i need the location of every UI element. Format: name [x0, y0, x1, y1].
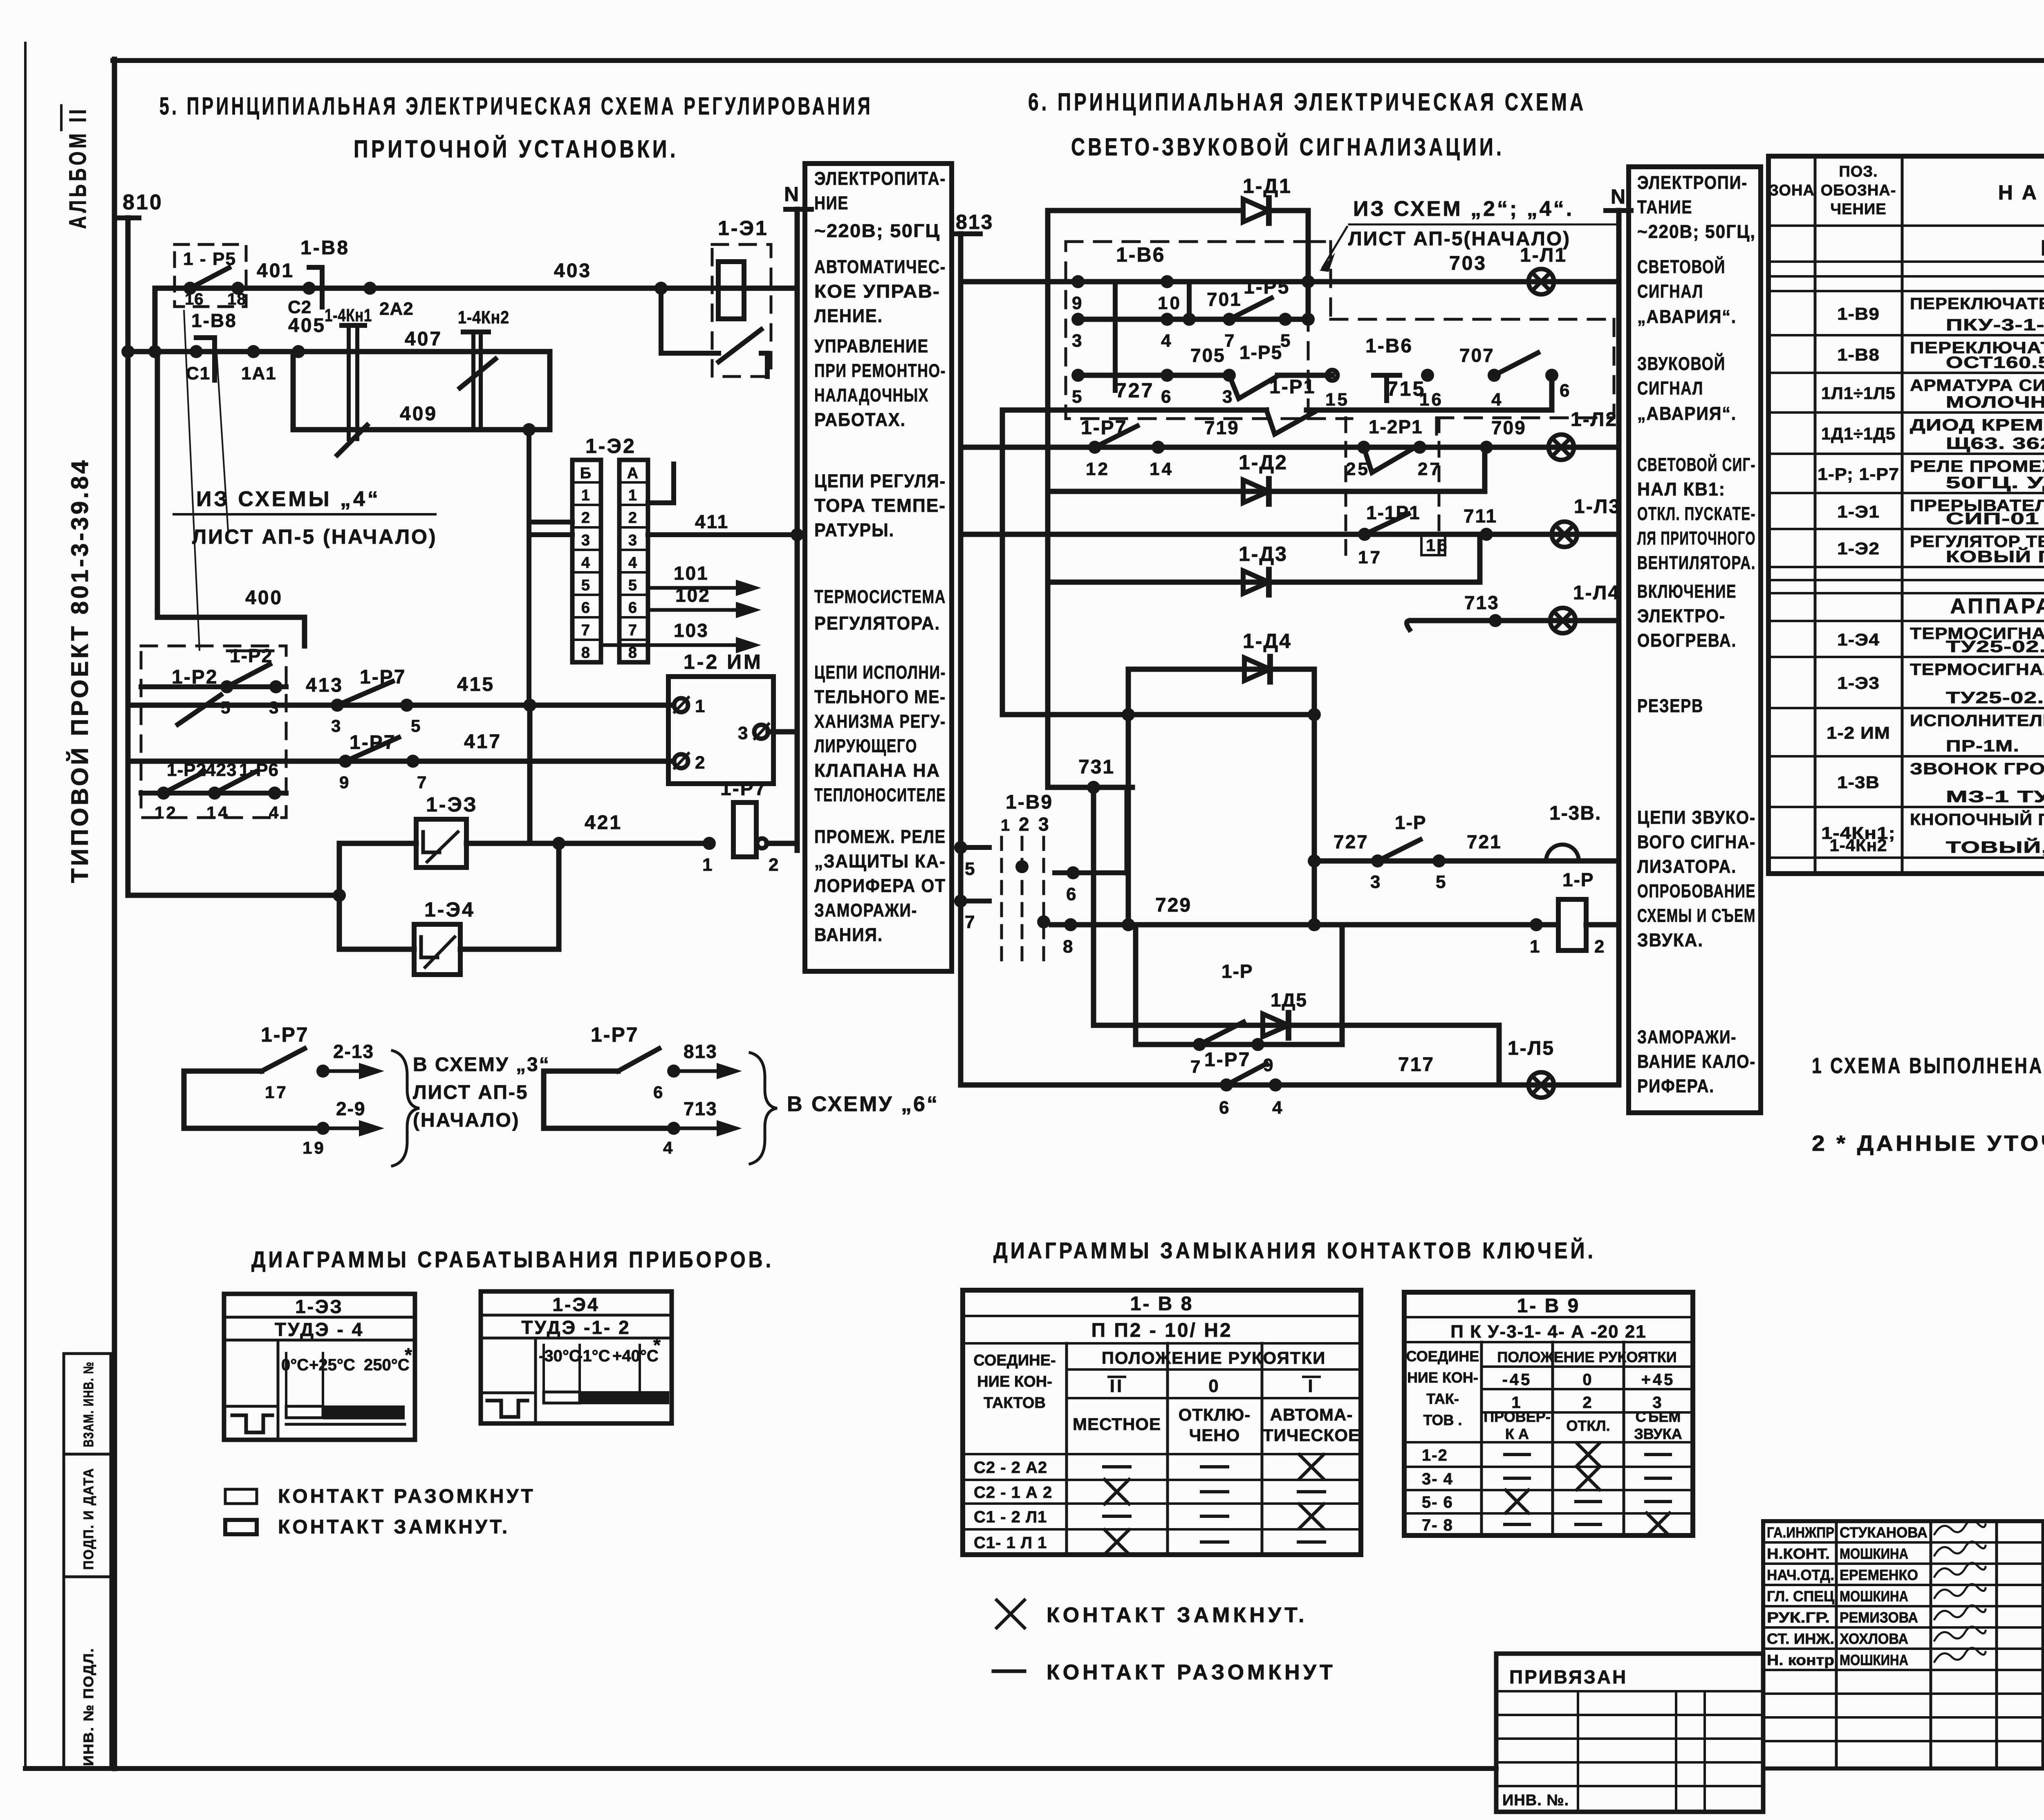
svg-text:421: 421 — [585, 812, 622, 834]
svg-text:705: 705 — [1190, 345, 1226, 366]
svg-text:*: * — [653, 1334, 663, 1356]
svg-text:ОТКЛ.: ОТКЛ. — [1566, 1417, 1610, 1434]
svg-text:810: 810 — [123, 191, 163, 214]
svg-text:ИЗ СХЕМЫ „4“: ИЗ СХЕМЫ „4“ — [196, 487, 381, 511]
svg-text:ТЕЛЬНОГО МЕ-: ТЕЛЬНОГО МЕ- — [814, 686, 946, 707]
svg-text:Щ63. 362. 002 .ТУ: Щ63. 362. 002 .ТУ — [1946, 435, 2044, 453]
svg-text:2: 2 — [695, 753, 707, 773]
svg-text:15: 15 — [1325, 390, 1349, 410]
svg-text:1: 1 — [628, 487, 639, 504]
svg-text:АВТОМАТИЧЕС-: АВТОМАТИЧЕС- — [814, 256, 946, 277]
svg-text:ЛИРУЮЩЕГО: ЛИРУЮЩЕГО — [814, 735, 917, 756]
svg-text:ПОЗ.: ПОЗ. — [1839, 163, 1878, 180]
svg-text:ЦЕПИ ЗВУКО-: ЦЕПИ ЗВУКО- — [1637, 807, 1756, 828]
svg-text:1-Д2: 1-Д2 — [1239, 451, 1288, 474]
svg-text:НИЕ КОН-: НИЕ КОН- — [1407, 1369, 1478, 1386]
svg-text:1-3В: 1-3В — [1837, 773, 1880, 792]
svg-text:ОБОГРЕВА.: ОБОГРЕВА. — [1637, 630, 1737, 651]
svg-text:ПР-1М.: ПР-1М. — [1946, 737, 2019, 755]
svg-text:С1- 1 Л 1: С1- 1 Л 1 — [974, 1534, 1047, 1552]
svg-text:ЗВУКА.: ЗВУКА. — [1637, 930, 1703, 950]
svg-text:СХЕМЫ И СЪЕМ: СХЕМЫ И СЪЕМ — [1637, 905, 1756, 926]
svg-text:ЭЛЕКТРО-: ЭЛЕКТРО- — [1637, 605, 1726, 626]
svg-text:3: 3 — [738, 723, 750, 743]
svg-text:417: 417 — [464, 731, 502, 753]
svg-text:1-Л4: 1-Л4 — [1573, 582, 1620, 604]
svg-text:УПРАВЛЕНИЕ: УПРАВЛЕНИЕ — [814, 336, 929, 356]
svg-text:2: 2 — [1582, 1394, 1594, 1412]
svg-text:ТУДЭ -1- 2: ТУДЭ -1- 2 — [521, 1317, 630, 1338]
svg-text:СВЕТОВОЙ: СВЕТОВОЙ — [1637, 256, 1726, 277]
svg-text:РАБОТАХ.: РАБОТАХ. — [814, 409, 906, 430]
svg-text:713: 713 — [1464, 592, 1499, 613]
svg-text:С2 - 1 А 2: С2 - 1 А 2 — [974, 1484, 1052, 1502]
svg-text:РЕМИЗОВА: РЕМИЗОВА — [1840, 1609, 1918, 1626]
svg-text:ПКУ-3-1-4-А-2021 ТУ16.526: ПКУ-3-1-4-А-2021 ТУ16.526.047-72 — [1946, 316, 2044, 334]
svg-text:ЛИСТ АП-5: ЛИСТ АП-5 — [413, 1082, 529, 1103]
svg-text:1: 1 — [702, 855, 714, 875]
svg-text:1Л1÷1Л5: 1Л1÷1Л5 — [1821, 383, 1896, 403]
svg-text:1-В9: 1-В9 — [1006, 791, 1053, 813]
svg-text:ОТКЛЮ-: ОТКЛЮ- — [1179, 1405, 1251, 1424]
svg-text:С1 - 2 Л1: С1 - 2 Л1 — [974, 1508, 1047, 1526]
svg-text:717: 717 — [1398, 1054, 1434, 1076]
svg-text:6: 6 — [628, 599, 639, 616]
svg-text:5: 5 — [1436, 872, 1448, 892]
svg-text:-45: -45 — [1502, 1371, 1532, 1389]
svg-text:1 СХЕМА ВЫПОЛНЕНА НА 2: 1 СХЕМА ВЫПОЛНЕНА НА 2 — [1812, 1053, 2044, 1078]
svg-text:2-9: 2-9 — [336, 1098, 365, 1119]
svg-text:РИФЕРА.: РИФЕРА. — [1637, 1076, 1715, 1096]
svg-text:1-Р1: 1-Р1 — [1269, 376, 1316, 398]
svg-text:7: 7 — [1224, 331, 1236, 351]
svg-text:2: 2 — [1019, 814, 1031, 835]
svg-text:С2 - 2 А2: С2 - 2 А2 — [974, 1459, 1047, 1477]
svg-text:КЛАПАНА НА: КЛАПАНА НА — [814, 760, 940, 781]
svg-text:ТУДЭ - 4: ТУДЭ - 4 — [275, 1319, 364, 1340]
svg-text:ЗВОНОК ГРОМКОГО БОЯ ~220В. 50: ЗВОНОК ГРОМКОГО БОЯ ~220В. 50ГЦ — [1910, 760, 2044, 778]
svg-text:101: 101 — [674, 563, 709, 584]
svg-text:7: 7 — [581, 622, 592, 639]
svg-text:ИНВ. №.: ИНВ. №. — [1502, 1792, 1569, 1809]
svg-text:50ГЦ. УДК-621. 318. 56: 50ГЦ. УДК-621. 318. 56 — [1946, 474, 2044, 492]
svg-text:17: 17 — [265, 1083, 288, 1102]
svg-text:1-В8: 1-В8 — [191, 310, 237, 331]
svg-text:1- В 8: 1- В 8 — [1130, 1293, 1194, 1315]
svg-text:В СХЕМУ „6“: В СХЕМУ „6“ — [787, 1092, 939, 1116]
svg-text:N: N — [784, 183, 800, 206]
svg-text:7- 8: 7- 8 — [1422, 1516, 1453, 1534]
svg-text:1-В6: 1-В6 — [1116, 243, 1165, 266]
svg-text:3: 3 — [1038, 814, 1051, 835]
svg-text:6: 6 — [653, 1083, 665, 1102]
svg-text:1-Р7: 1-Р7 — [261, 1023, 309, 1046]
svg-text:3: 3 — [331, 716, 343, 735]
svg-text:ЭЛЕКТРОПИТА-: ЭЛЕКТРОПИТА- — [814, 168, 946, 189]
svg-text:707: 707 — [1459, 345, 1495, 366]
svg-text:1-Р2: 1-Р2 — [230, 645, 273, 666]
svg-text:1-Э2: 1-Э2 — [585, 435, 636, 457]
svg-text:ВЗАМ. ИНВ. №: ВЗАМ. ИНВ. № — [81, 1361, 96, 1447]
svg-text:П К У-3-1- 4- А -20 21: П К У-3-1- 4- А -20 21 — [1450, 1322, 1647, 1342]
svg-text:813: 813 — [684, 1041, 717, 1062]
svg-text:5: 5 — [628, 577, 639, 594]
svg-text:НАЧ.ОТД.: НАЧ.ОТД. — [1767, 1567, 1834, 1583]
svg-text:НИЕ: НИЕ — [814, 193, 849, 213]
svg-text:ВОГО СИГНА-: ВОГО СИГНА- — [1637, 832, 1756, 852]
svg-text:-30°С: -30°С — [539, 1347, 581, 1365]
svg-text:ТАКТОВ: ТАКТОВ — [984, 1394, 1046, 1412]
svg-text:N: N — [1611, 185, 1626, 208]
svg-text:4: 4 — [1161, 331, 1173, 351]
svg-text:ОБОЗНА-: ОБОЗНА- — [1821, 182, 1896, 199]
svg-text:ПРИ РЕМОНТНО-: ПРИ РЕМОНТНО- — [814, 360, 946, 381]
svg-text:ЗОНА: ЗОНА — [1769, 182, 1815, 199]
svg-text:ТИПОВОЙ ПРОЕКТ 801-3-39.84: ТИПОВОЙ ПРОЕКТ 801-3-39.84 — [67, 458, 93, 883]
svg-text:ПРОВЕР-: ПРОВЕР- — [1484, 1408, 1550, 1425]
svg-text:ПЕРЕКЛЮЧАТЕЛЬ УНИВЕРСАЛЬНЫЙ: ПЕРЕКЛЮЧАТЕЛЬ УНИВЕРСАЛЬНЫЙ — [1910, 294, 2044, 313]
svg-text:9: 9 — [1072, 293, 1084, 313]
svg-text:ТОВ .: ТОВ . — [1423, 1412, 1462, 1428]
svg-text:СВЕТОВОЙ СИГ-: СВЕТОВОЙ СИГ- — [1637, 454, 1756, 475]
svg-text:СТ. ИНЖ.: СТ. ИНЖ. — [1767, 1630, 1834, 1647]
svg-text:ВАНИЕ КАЛО-: ВАНИЕ КАЛО- — [1637, 1051, 1756, 1072]
svg-text:СОЕДИНЕ-: СОЕДИНЕ- — [973, 1352, 1056, 1369]
svg-text:НАЛАДОЧНЫХ: НАЛАДОЧНЫХ — [814, 385, 929, 406]
svg-text:ЗАМОРАЖИ-: ЗАМОРАЖИ- — [1637, 1027, 1737, 1047]
svg-text:407: 407 — [405, 328, 442, 350]
svg-text:ТЕРМОСИГНАЛИЗАТОР ТИПА ТУДЭ-4: ТЕРМОСИГНАЛИЗАТОР ТИПА ТУДЭ-4 — [1910, 661, 2044, 679]
svg-text:СЪЕМ: СЪЕМ — [1636, 1408, 1681, 1425]
svg-text:ТЕРМОСИСТЕМА: ТЕРМОСИСТЕМА — [814, 586, 946, 607]
svg-text:3: 3 — [1072, 331, 1084, 351]
svg-text:5: 5 — [965, 859, 977, 879]
svg-text:715: 715 — [1387, 377, 1425, 400]
svg-text:400: 400 — [245, 587, 283, 609]
svg-text:ХАНИЗМА РЕГУ-: ХАНИЗМА РЕГУ- — [814, 711, 946, 732]
svg-text:1: 1 — [1530, 937, 1542, 957]
svg-text:413: 413 — [306, 675, 343, 696]
svg-text:РЕЗЕРВ: РЕЗЕРВ — [1637, 695, 1703, 716]
svg-text:КОЕ УПРАВ-: КОЕ УПРАВ- — [814, 281, 940, 302]
svg-text:1-В9: 1-В9 — [1837, 304, 1880, 323]
svg-text:1-2 ИМ: 1-2 ИМ — [1827, 723, 1890, 742]
svg-text:ПОЛОЖЕНИЕ РУКОЯТКИ: ПОЛОЖЕНИЕ РУКОЯТКИ — [1102, 1348, 1326, 1367]
svg-text:ИНВ. № ПОДЛ.: ИНВ. № ПОДЛ. — [81, 1647, 96, 1766]
svg-text:6: 6 — [1161, 387, 1173, 407]
svg-text:ЦЕПИ ИСПОЛНИ-: ЦЕПИ ИСПОЛНИ- — [814, 662, 946, 683]
svg-text:МЗ-1 ТУ25-05.1045-76: МЗ-1 ТУ25-05.1045-76 — [1946, 788, 2044, 806]
svg-text:АРМАТУРА СИГНАЛЬНЫХ ЛАМП ~220В: АРМАТУРА СИГНАЛЬНЫХ ЛАМП ~220В, ЛИНЗА — [1910, 377, 2044, 394]
svg-text:ИЗ СХЕМ „2“; „4“.: ИЗ СХЕМ „2“; „4“. — [1353, 197, 1574, 221]
svg-text:250°С: 250°С — [364, 1356, 410, 1374]
svg-text:-1°С: -1°С — [577, 1347, 610, 1365]
svg-text:КНОПОЧНЫЙ ПОСТ УПРАВЛЕНИЯ ДВУХ: КНОПОЧНЫЙ ПОСТ УПРАВЛЕНИЯ ДВУХШТИФ- — [1910, 810, 2044, 829]
svg-text:2: 2 — [1594, 937, 1606, 957]
svg-text:СИГНАЛ: СИГНАЛ — [1637, 378, 1703, 399]
svg-text:МОШКИНА: МОШКИНА — [1840, 1652, 1908, 1668]
svg-text:ВКЛЮЧЕНИЕ: ВКЛЮЧЕНИЕ — [1637, 581, 1737, 602]
svg-text:2 * ДАННЫЕ УТОЧНЯЮТСЯ ПРИ: 2 * ДАННЫЕ УТОЧНЯЮТСЯ ПРИ НАЛАДКЕ. — [1812, 1131, 2044, 1156]
svg-text:ЕРЕМЕНКО: ЕРЕМЕНКО — [1840, 1567, 1918, 1583]
svg-text:5. ПРИНЦИПИАЛЬНАЯ ЭЛЕКТРИЧЕС: 5. ПРИНЦИПИАЛЬНАЯ ЭЛЕКТРИЧЕСКАЯ СХЕМА РЕ… — [159, 92, 873, 120]
svg-text:4: 4 — [581, 554, 592, 572]
svg-text:ТУ25-02. 281074-78: ТУ25-02. 281074-78 — [1946, 689, 2044, 707]
svg-text:1-Р7: 1-Р7 — [350, 732, 396, 753]
svg-text:ЧЕНО: ЧЕНО — [1189, 1426, 1240, 1445]
svg-text:ТУ25-02. 281074 -78: ТУ25-02. 281074 -78 — [1946, 638, 2044, 656]
svg-text:7: 7 — [965, 912, 977, 932]
svg-text:РЕГУЛЯТОРА.: РЕГУЛЯТОРА. — [814, 613, 940, 634]
svg-text:ЗВУКОВОЙ: ЗВУКОВОЙ — [1637, 353, 1726, 374]
svg-text:МОШКИНА: МОШКИНА — [1840, 1588, 1908, 1605]
svg-text:1Д5: 1Д5 — [1271, 989, 1307, 1011]
svg-text:1-Д1: 1-Д1 — [1243, 175, 1292, 197]
svg-text:1-Р; 1-Р7: 1-Р; 1-Р7 — [1818, 464, 1899, 484]
svg-text:КОВЫЙ ПТРЗ-04 ТУ25.02-2003: КОВЫЙ ПТРЗ-04 ТУ25.02-200345-78 — [1946, 547, 2044, 566]
svg-text:ПРОМЕЖ. РЕЛЕ: ПРОМЕЖ. РЕЛЕ — [814, 826, 946, 847]
svg-text:7: 7 — [1190, 1057, 1202, 1077]
svg-text:ОПРОБОВАНИЕ: ОПРОБОВАНИЕ — [1637, 881, 1756, 901]
svg-text:1-Р5: 1-Р5 — [1244, 276, 1290, 298]
svg-text:1-3В.: 1-3В. — [1549, 802, 1601, 824]
svg-text:Б: Б — [580, 465, 593, 482]
svg-text:АППАРАТУРА ПО МЕСТУ.: АППАРАТУРА ПО МЕСТУ. — [1950, 594, 2044, 618]
svg-text:1-Р: 1-Р — [1562, 869, 1594, 890]
svg-text:ЩИТ ЩУ1: ЩИТ ЩУ1 — [2041, 236, 2044, 260]
svg-text:4: 4 — [1491, 390, 1503, 410]
svg-text:5- 6: 5- 6 — [1422, 1493, 1453, 1511]
svg-text:19: 19 — [303, 1138, 326, 1157]
svg-text:ДИОД КРЕМНИЕВЫЙ Д-226Б: ДИОД КРЕМНИЕВЫЙ Д-226Б — [1910, 415, 2044, 434]
svg-text:1-Э3: 1-Э3 — [1837, 673, 1880, 693]
svg-text:ПРИВЯЗАН: ПРИВЯЗАН — [1509, 1666, 1627, 1688]
svg-text:1-Э2: 1-Э2 — [1837, 539, 1880, 558]
svg-text:1-Л1: 1-Л1 — [1520, 244, 1567, 266]
svg-text:1-ЭЗ: 1-ЭЗ — [295, 1296, 343, 1317]
svg-text:2: 2 — [628, 509, 639, 527]
svg-text:6. ПРИНЦИПИАЛЬНАЯ ЭЛЕКТРИЧЕСК: 6. ПРИНЦИПИАЛЬНАЯ ЭЛЕКТРИЧЕСКАЯ СХЕМА — [1028, 88, 1586, 116]
svg-text:ВАНИЯ.: ВАНИЯ. — [814, 924, 883, 945]
svg-text:1-Э1: 1-Э1 — [718, 217, 769, 240]
svg-text:409: 409 — [400, 403, 437, 425]
svg-text:Н. контр: Н. контр — [1767, 1652, 1834, 1668]
svg-text:1Д1÷1Д5: 1Д1÷1Д5 — [1821, 424, 1896, 443]
svg-text:ИСПОЛНИТЕЛЬНЫЙ МЕХАНИЗМ: ИСПОЛНИТЕЛЬНЫЙ МЕХАНИЗМ — [1910, 711, 2044, 730]
svg-text:+45: +45 — [1641, 1371, 1675, 1389]
svg-text:12: 12 — [155, 803, 178, 822]
svg-text:1-Э4: 1-Э4 — [552, 1294, 599, 1315]
svg-text:3: 3 — [581, 532, 592, 549]
svg-text:1-Р7: 1-Р7 — [720, 778, 766, 800]
svg-text:1-В8: 1-В8 — [1837, 345, 1880, 364]
svg-text:3: 3 — [628, 532, 639, 549]
svg-text:1-2 ИМ: 1-2 ИМ — [684, 650, 763, 673]
svg-text:1А1: 1А1 — [241, 363, 277, 383]
svg-text:411: 411 — [695, 511, 729, 532]
svg-text:АВТОМА-: АВТОМА- — [1270, 1405, 1353, 1424]
svg-text:ЛЕНИЕ.: ЛЕНИЕ. — [814, 305, 883, 326]
svg-text:14: 14 — [206, 803, 230, 822]
svg-text:СТУКАНОВА: СТУКАНОВА — [1840, 1524, 1927, 1541]
svg-text:1-2: 1-2 — [1422, 1446, 1448, 1464]
svg-text:4: 4 — [663, 1138, 675, 1157]
svg-text:8: 8 — [1063, 937, 1075, 957]
svg-text:1: 1 — [1001, 816, 1012, 834]
svg-text:7: 7 — [417, 773, 428, 792]
svg-text:1-Р2: 1-Р2 — [172, 666, 218, 688]
svg-text:СВЕТО-ЗВУКОВОЙ СИГНАЛИЗАЦИИ.: СВЕТО-ЗВУКОВОЙ СИГНАЛИЗАЦИИ. — [1071, 133, 1504, 161]
svg-text:709: 709 — [1491, 417, 1526, 438]
svg-text:4: 4 — [1272, 1098, 1284, 1118]
svg-text:103: 103 — [674, 620, 709, 641]
svg-text:П П2 - 10/ Н2: П П2 - 10/ Н2 — [1091, 1320, 1232, 1341]
svg-text:ТОВЫЙ, 1з+1з КОНТ. ПКЕ-222: ТОВЫЙ, 1з+1з КОНТ. ПКЕ-222-2 — [1946, 838, 2044, 856]
svg-text:17: 17 — [1358, 547, 1382, 567]
svg-text:С1: С1 — [186, 363, 211, 383]
svg-text:РЕЛЕ ПРОМЕЖУТОЧНОЕ РПУ-2-36620: РЕЛЕ ПРОМЕЖУТОЧНОЕ РПУ-2-366203 ~220В — [1910, 457, 2044, 475]
svg-text:1-Э4: 1-Э4 — [1837, 630, 1880, 649]
svg-text:КОНТАКТ РАЗОМКНУТ: КОНТАКТ РАЗОМКНУТ — [1047, 1661, 1336, 1684]
svg-text:Н.КОНТ.: Н.КОНТ. — [1767, 1545, 1830, 1562]
svg-text:1-Л5: 1-Л5 — [1508, 1038, 1555, 1059]
svg-text:1 - Р5: 1 - Р5 — [183, 249, 236, 269]
svg-text:7: 7 — [628, 622, 639, 639]
svg-text:СИГНАЛ: СИГНАЛ — [1637, 281, 1703, 302]
svg-text:НИЕ КОН-: НИЕ КОН- — [977, 1373, 1052, 1390]
svg-text:16: 16 — [1426, 536, 1449, 555]
svg-text:719: 719 — [1204, 417, 1239, 438]
svg-text:703: 703 — [1449, 253, 1487, 274]
svg-text:729: 729 — [1155, 894, 1192, 916]
svg-text:4: 4 — [628, 554, 639, 572]
svg-text:1-4Кн2: 1-4Кн2 — [458, 307, 509, 327]
svg-text:5: 5 — [581, 577, 592, 594]
svg-text:ВЕНТИЛЯТОРА.: ВЕНТИЛЯТОРА. — [1637, 552, 1756, 573]
svg-text:МЕСТНОЕ: МЕСТНОЕ — [1073, 1414, 1161, 1434]
svg-text:СОЕДИНЕ: СОЕДИНЕ — [1406, 1348, 1479, 1365]
svg-text:1-В6: 1-В6 — [1365, 335, 1413, 357]
svg-text:731: 731 — [1078, 756, 1115, 778]
svg-text:8: 8 — [581, 644, 592, 661]
svg-text:403: 403 — [554, 260, 592, 282]
svg-text:ЛОРИФЕРА ОТ: ЛОРИФЕРА ОТ — [814, 875, 946, 896]
svg-text:*: * — [405, 1344, 414, 1365]
svg-text:711: 711 — [1464, 505, 1497, 527]
svg-text:КОНТАКТ РАЗОМКНУТ: КОНТАКТ РАЗОМКНУТ — [278, 1486, 536, 1507]
svg-text:6: 6 — [1066, 884, 1078, 904]
svg-text:2: 2 — [769, 855, 780, 875]
svg-text:ЦЕПИ РЕГУЛЯ-: ЦЕПИ РЕГУЛЯ- — [814, 471, 946, 491]
svg-text:721: 721 — [1467, 831, 1502, 852]
svg-text:ПОДП. И ДАТА: ПОДП. И ДАТА — [81, 1468, 96, 1570]
svg-text:АЛЬБОМ II: АЛЬБОМ II — [65, 106, 91, 229]
svg-text:1-2Р1: 1-2Р1 — [1369, 416, 1423, 437]
svg-text:ТАК-: ТАК- — [1426, 1390, 1459, 1407]
svg-text:ПОЛОЖЕНИЕ РУКОЯТКИ: ПОЛОЖЕНИЕ РУКОЯТКИ — [1497, 1349, 1676, 1365]
svg-text:ЗВУКА: ЗВУКА — [1634, 1426, 1682, 1442]
svg-text:701: 701 — [1207, 289, 1242, 310]
svg-text:ТИЧЕСКОЕ: ТИЧЕСКОЕ — [1263, 1426, 1360, 1445]
svg-text:„ЗАЩИТЫ КА-: „ЗАЩИТЫ КА- — [814, 851, 946, 872]
svg-text:ГА.ИНЖПР: ГА.ИНЖПР — [1767, 1524, 1834, 1541]
svg-text:КОНТАКТ ЗАМКНУТ.: КОНТАКТ ЗАМКНУТ. — [278, 1516, 510, 1538]
svg-text:ОСТ160.526.001-74: ОСТ160.526.001-74 — [1946, 354, 2044, 372]
svg-text:12: 12 — [1086, 459, 1110, 479]
svg-text:1-4Кн1: 1-4Кн1 — [325, 305, 372, 325]
svg-text:„АВАРИЯ“.: „АВАРИЯ“. — [1637, 306, 1737, 327]
svg-text:ХОХЛОВА: ХОХЛОВА — [1840, 1630, 1908, 1647]
svg-text:КОНТАКТ ЗАМКНУТ.: КОНТАКТ ЗАМКНУТ. — [1047, 1603, 1307, 1627]
svg-text:МОЛОЧНАЯ СС-2 ГОСТ 10264-82.: МОЛОЧНАЯ СС-2 ГОСТ 10264-82. — [1946, 393, 2044, 411]
svg-text:1-Р7: 1-Р7 — [591, 1023, 639, 1046]
svg-text:2А2: 2А2 — [379, 299, 414, 319]
svg-text:ДИАГРАММЫ ЗАМЫКАНИЯ КОНТАКТО: ДИАГРАММЫ ЗАМЫКАНИЯ КОНТАКТОВ КЛЮЧЕЙ. — [993, 1237, 1596, 1263]
svg-text:1: 1 — [695, 696, 707, 716]
svg-text:ЛИЗАТОРА.: ЛИЗАТОРА. — [1637, 856, 1737, 877]
svg-text:+40°С: +40°С — [612, 1347, 659, 1365]
svg-text:2: 2 — [581, 509, 592, 527]
svg-text:~220В; 50ГЦ: ~220В; 50ГЦ — [814, 220, 940, 241]
svg-text:713: 713 — [684, 1098, 717, 1119]
svg-text:ЗАМОРАЖИ-: ЗАМОРАЖИ- — [814, 900, 917, 921]
svg-text:1-Р5: 1-Р5 — [1239, 342, 1282, 363]
svg-text:1-В8: 1-В8 — [300, 237, 350, 259]
svg-text:ДИАГРАММЫ СРАБАТЫВАНИЯ ПРИБО: ДИАГРАММЫ СРАБАТЫВАНИЯ ПРИБОРОВ. — [251, 1246, 774, 1272]
svg-text:~220В; 50ГЦ,: ~220В; 50ГЦ, — [1637, 221, 1756, 242]
svg-text:6: 6 — [1560, 381, 1571, 401]
svg-text:1-Э1: 1-Э1 — [1837, 502, 1880, 521]
svg-text:ЛИСТ АП-5 (НАЧАЛО): ЛИСТ АП-5 (НАЧАЛО) — [192, 525, 437, 548]
svg-text:1-1Р1: 1-1Р1 — [1366, 502, 1421, 523]
svg-text:ГЛ. СПЕЦ: ГЛ. СПЕЦ — [1767, 1588, 1835, 1605]
svg-text:0: 0 — [1208, 1376, 1220, 1396]
svg-text:405: 405 — [288, 315, 326, 336]
svg-text:10: 10 — [1158, 293, 1182, 313]
svg-text:3: 3 — [1370, 872, 1382, 892]
svg-text:ОТКЛ. ПУСКАТЕ-: ОТКЛ. ПУСКАТЕ- — [1637, 503, 1756, 524]
svg-text:Н А И М Е Н О В А Н И Е: Н А И М Е Н О В А Н И Е — [1998, 181, 2044, 204]
svg-text:„АВАРИЯ“.: „АВАРИЯ“. — [1637, 403, 1737, 424]
svg-text:1-Л2: 1-Л2 — [1571, 409, 1618, 430]
svg-text:1- В 9: 1- В 9 — [1517, 1295, 1580, 1317]
svg-text:II: II — [1110, 1376, 1124, 1396]
svg-text:РУК.ГР.: РУК.ГР. — [1767, 1609, 1830, 1626]
svg-text:В СХЕМУ „3“: В СХЕМУ „3“ — [413, 1054, 550, 1076]
svg-text:НАЛ КВ1:: НАЛ КВ1: — [1637, 479, 1726, 500]
svg-text:(НАЧАЛО): (НАЧАЛО) — [413, 1109, 520, 1131]
svg-text:1-Р: 1-Р — [1395, 812, 1427, 833]
svg-text:С2: С2 — [288, 297, 312, 317]
svg-text:727: 727 — [1334, 831, 1369, 852]
svg-text:4: 4 — [269, 803, 280, 822]
svg-text:2-13: 2-13 — [333, 1041, 374, 1062]
svg-text:102: 102 — [675, 585, 710, 606]
svg-text:К А: К А — [1505, 1426, 1529, 1442]
svg-text:ТОРА ТЕМПЕ-: ТОРА ТЕМПЕ- — [814, 495, 946, 516]
svg-text:5: 5 — [1072, 387, 1084, 407]
svg-text:РАТУРЫ.: РАТУРЫ. — [814, 520, 894, 540]
svg-text:1-Р7: 1-Р7 — [1204, 1049, 1251, 1071]
svg-text:А: А — [627, 465, 640, 482]
svg-text:1-ЭЗ: 1-ЭЗ — [426, 793, 478, 816]
svg-text:1-Д4: 1-Д4 — [1243, 630, 1292, 652]
svg-text:6: 6 — [581, 599, 592, 616]
svg-text:1: 1 — [581, 487, 592, 504]
svg-text:6: 6 — [1219, 1098, 1231, 1118]
svg-text:0: 0 — [1582, 1371, 1594, 1389]
svg-text:401: 401 — [257, 260, 294, 282]
